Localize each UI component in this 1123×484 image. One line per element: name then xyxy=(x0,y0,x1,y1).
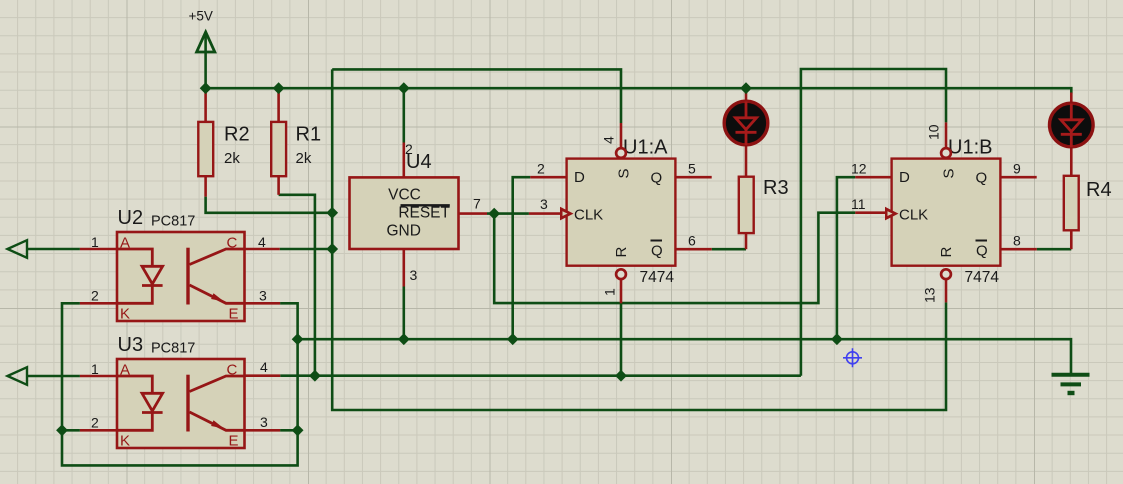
IC U4 xyxy=(350,141,482,283)
wire R1 bottom to U3-collector line xyxy=(279,195,315,376)
pin U2 pin3 stub xyxy=(245,302,281,305)
svg-text:4: 4 xyxy=(260,359,268,375)
pin LED1 top xyxy=(745,91,748,102)
svg-text:PC817: PC817 xyxy=(151,341,195,357)
wire U4 VCC pin2 upper xyxy=(402,88,405,142)
node R2 bottom S-net xyxy=(326,207,338,219)
svg-text:1: 1 xyxy=(91,234,99,250)
wire S-net vertical x332 down to y410 across to U1:B R pin xyxy=(332,69,946,410)
resistor R3 xyxy=(739,177,789,233)
resistor R1 xyxy=(271,122,321,176)
svg-text:RESET: RESET xyxy=(398,204,450,221)
pin U1:B Qbar 8 xyxy=(1000,248,1036,251)
svg-text:E: E xyxy=(229,433,239,450)
svg-text:8: 8 xyxy=(1013,233,1021,249)
pin R2 bottom xyxy=(204,176,207,196)
svg-text:Q: Q xyxy=(976,242,988,259)
svg-text:2: 2 xyxy=(537,161,545,177)
flip-flop U1:A xyxy=(537,136,696,296)
node rail LED1 xyxy=(740,82,752,94)
wire R2 bottom to S-net vertical xyxy=(206,197,333,213)
svg-text:2k: 2k xyxy=(224,150,240,167)
wire +5V stem xyxy=(204,34,207,89)
svg-text:PC817: PC817 xyxy=(151,214,195,230)
node rail U4 VCC xyxy=(398,82,410,94)
svg-text:K: K xyxy=(120,306,130,323)
node U3 pin3 xyxy=(292,424,304,436)
pin R2 top xyxy=(204,93,207,122)
svg-text:2k: 2k xyxy=(296,150,312,167)
wire U4 pin7 to CLK pins xyxy=(487,212,529,215)
svg-text:R3: R3 xyxy=(763,177,789,199)
svg-text:2: 2 xyxy=(405,141,413,157)
svg-text:R: R xyxy=(938,247,955,258)
svg-text:S: S xyxy=(941,168,958,178)
wire pin7 net down and across to U1:B CLK xyxy=(494,213,855,303)
wire U3 pin3 stub xyxy=(280,429,298,432)
terminal input U2 xyxy=(8,240,28,258)
pin U1:A CLK 3 xyxy=(529,212,567,215)
svg-text:R: R xyxy=(613,247,630,258)
svg-text:7: 7 xyxy=(473,196,481,212)
wire +5V rail xyxy=(206,88,1072,93)
pin U1:B D 12 xyxy=(855,176,891,179)
pin R1 top xyxy=(277,93,280,122)
svg-text:E: E xyxy=(229,306,239,323)
pin U1:A Q 5 xyxy=(675,176,711,179)
optocoupler U2 xyxy=(91,207,267,323)
svg-text:5: 5 xyxy=(688,161,696,177)
pin U1:A Qbar 6 xyxy=(675,248,711,251)
svg-text:3: 3 xyxy=(540,196,548,212)
node rail R1 xyxy=(273,82,285,94)
svg-text:12: 12 xyxy=(851,161,867,177)
pin LED2 top xyxy=(1070,93,1073,104)
pin U3 pin3 stub xyxy=(245,429,281,432)
pin U1:B Q 9 xyxy=(1000,176,1036,179)
flip-flop U1:B xyxy=(851,124,1021,303)
resistor R2 xyxy=(198,122,249,176)
wire U1:A R pin down to U3-collector line xyxy=(620,303,623,375)
svg-text:VCC: VCC xyxy=(388,187,421,204)
svg-text:+5V: +5V xyxy=(189,9,213,24)
wire U3 pin4 collector line xyxy=(280,374,801,377)
wire U4 GND pin lower xyxy=(402,287,405,340)
svg-text:R4: R4 xyxy=(1086,179,1112,201)
svg-text:D: D xyxy=(574,169,585,186)
svg-text:7474: 7474 xyxy=(640,269,675,286)
svg-text:3: 3 xyxy=(260,414,268,430)
optocoupler U3 xyxy=(91,334,268,450)
pin U3 pin2 stub xyxy=(80,429,117,432)
svg-text:U1:B: U1:B xyxy=(948,137,992,159)
svg-text:Q: Q xyxy=(651,242,663,259)
PIN STUBS (dark red) xyxy=(80,91,1071,431)
svg-text:3: 3 xyxy=(410,267,418,283)
pin U1:A S 4 xyxy=(620,123,623,148)
svg-text:11: 11 xyxy=(851,196,866,212)
pin U4 RESET 7 xyxy=(459,212,488,215)
pin U4 GND 3 xyxy=(402,249,405,287)
origin marker xyxy=(843,348,862,367)
svg-text:U3: U3 xyxy=(118,334,144,356)
svg-text:U1:A: U1:A xyxy=(623,137,668,159)
node U4 GND xyxy=(398,333,410,345)
wire upper-right from U3-collector line to U1:B S pin xyxy=(801,69,946,376)
node U2 pin4 S-net xyxy=(326,243,338,255)
pin U1:A R 1 xyxy=(620,280,623,304)
wire U1:A Qbar to R3 xyxy=(712,248,746,251)
wire U1:A D pin to ground line xyxy=(513,177,531,339)
svg-text:U2: U2 xyxy=(118,207,144,229)
svg-text:13: 13 xyxy=(922,287,938,303)
wire U1:B Qbar to R4 xyxy=(1037,248,1072,251)
svg-text:D: D xyxy=(899,169,910,186)
wire U2 pin1 from terminal xyxy=(27,248,80,251)
svg-text:4: 4 xyxy=(601,136,617,144)
svg-text:GND: GND xyxy=(387,222,421,239)
wire U2 pin3 down around bottom loop to U2 pin2 xyxy=(62,303,298,465)
node gnd line left xyxy=(292,333,304,345)
wire U3 pin2 stub xyxy=(62,429,80,432)
power +5V terminal xyxy=(189,9,215,53)
svg-text:S: S xyxy=(616,168,633,178)
pin R3 bottom xyxy=(745,233,748,249)
svg-text:CLK: CLK xyxy=(899,206,928,223)
svg-text:K: K xyxy=(120,433,130,450)
node U4 pin7 xyxy=(488,208,500,220)
svg-text:4: 4 xyxy=(258,234,266,250)
node U3 pin2 xyxy=(56,424,68,436)
svg-text:1: 1 xyxy=(602,288,618,296)
node U1:A R collector line xyxy=(615,370,627,382)
svg-text:1: 1 xyxy=(91,361,99,377)
svg-text:Q: Q xyxy=(976,169,988,186)
pin U1:B S 10 xyxy=(945,122,948,147)
pin U1:B R 13 xyxy=(945,280,948,303)
node U1:A D gnd xyxy=(507,333,519,345)
ground xyxy=(1052,375,1090,393)
resistor R4 xyxy=(1064,176,1112,231)
svg-text:9: 9 xyxy=(1013,161,1021,177)
pin U3 pin1 stub xyxy=(80,375,117,378)
svg-text:Q: Q xyxy=(651,169,663,186)
wire U3 pin1 from terminal xyxy=(27,375,80,378)
terminal input U3 xyxy=(8,367,28,385)
node U1:B D gnd xyxy=(831,333,843,345)
LED D2 xyxy=(1050,103,1094,147)
svg-text:2: 2 xyxy=(91,415,99,431)
svg-text:7474: 7474 xyxy=(965,269,1000,286)
pin U2 pin2 stub xyxy=(80,302,117,305)
pin U1:B CLK 11 xyxy=(855,211,891,214)
pin R1 bottom xyxy=(277,176,280,195)
pin U1:A D 2 xyxy=(530,176,566,179)
svg-text:10: 10 xyxy=(926,124,942,140)
pin R4 bottom xyxy=(1070,230,1073,249)
svg-text:3: 3 xyxy=(259,288,267,304)
wire U1:B D pin to ground line xyxy=(837,177,855,339)
LED D1 xyxy=(724,101,768,145)
pin LED2 bottom / R4 top xyxy=(1070,147,1073,176)
svg-text:6: 6 xyxy=(688,233,696,249)
pin U2 pin4 stub xyxy=(245,248,280,251)
svg-text:R1: R1 xyxy=(296,124,322,146)
wire ground line xyxy=(298,339,1071,375)
svg-text:R2: R2 xyxy=(224,124,250,146)
svg-text:2: 2 xyxy=(91,288,99,304)
wire upper-left S wire to U1:A S pin xyxy=(332,69,621,123)
pin U4 VCC 2 xyxy=(402,143,405,178)
wire U2 pin4 to S-net xyxy=(280,248,333,251)
pin U3 pin4 stub xyxy=(245,374,281,377)
node R1 U3 collector xyxy=(309,370,321,382)
pin LED1 bottom / R3 top xyxy=(745,145,748,177)
node rail R2 xyxy=(200,82,212,94)
pin U2 pin1 stub xyxy=(80,248,117,251)
svg-text:CLK: CLK xyxy=(574,206,603,223)
